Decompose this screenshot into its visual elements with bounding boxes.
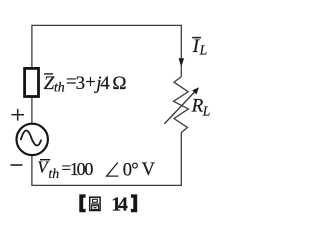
svg-text:4: 4 bbox=[118, 193, 128, 215]
source Vth (AC source circle) bbox=[17, 124, 48, 155]
svg-text:0: 0 bbox=[84, 159, 93, 179]
minus polarity of source Vth bbox=[11, 164, 23, 166]
label Zth = 3 + j4 ohms bbox=[44, 72, 127, 96]
svg-text:+: + bbox=[85, 72, 96, 93]
label Vth = 100 angle 0 deg V bbox=[37, 158, 155, 182]
wire top (node between Zth branch and RL branch) bbox=[32, 24, 181, 26]
svg-text:V: V bbox=[142, 160, 156, 180]
caption opening lenticular bracket bbox=[79, 194, 85, 212]
impedance Zth (rectangle) bbox=[25, 68, 39, 96]
caption number 14 bbox=[111, 193, 128, 215]
wire left middle (Zth to source Vth) bbox=[31, 97, 33, 126]
wire left upper (top corner to Zth) bbox=[31, 25, 33, 69]
variable resistor arrow through RL bbox=[164, 87, 199, 124]
svg-text:th: th bbox=[48, 167, 59, 182]
caption closing lenticular bracket bbox=[131, 194, 137, 212]
svg-text:L: L bbox=[202, 103, 211, 118]
wire right upper (top corner down to resistor RL) bbox=[180, 25, 182, 77]
label IL bbox=[192, 36, 208, 58]
svg-text:4: 4 bbox=[100, 73, 110, 94]
label Zth overbar bbox=[44, 73, 53, 75]
label Vth overbar bbox=[40, 159, 50, 161]
wire left lower (source Vth to bottom corner) bbox=[31, 154, 33, 185]
current arrow IL (arrowhead on right wire) bbox=[179, 58, 185, 66]
svg-text:L: L bbox=[199, 42, 208, 57]
svg-text:th: th bbox=[54, 81, 65, 96]
plus polarity of source Vth bbox=[11, 109, 24, 121]
label RL bbox=[191, 96, 211, 119]
svg-text:°: ° bbox=[131, 160, 138, 180]
svg-text:3: 3 bbox=[76, 73, 86, 94]
wire right lower (resistor RL to bottom corner) bbox=[180, 133, 182, 186]
wire bottom (return net) bbox=[31, 184, 182, 186]
svg-text:R: R bbox=[191, 96, 204, 117]
angle symbol of phasor bbox=[107, 163, 119, 177]
svg-text:Ω: Ω bbox=[112, 73, 126, 94]
caption character tu (figure) bbox=[90, 197, 100, 210]
label IL overbar bbox=[192, 37, 201, 39]
resistor RL (variable, zigzag) bbox=[174, 77, 189, 133]
